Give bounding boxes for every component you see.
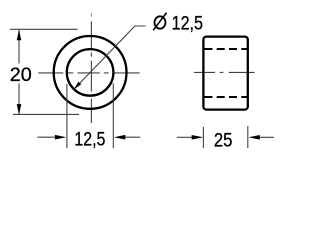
svg-text:12,5: 12,5 (74, 128, 105, 150)
svg-text:12,5: 12,5 (172, 13, 203, 35)
svg-text:20: 20 (10, 64, 32, 86)
svg-text:25: 25 (214, 130, 233, 152)
